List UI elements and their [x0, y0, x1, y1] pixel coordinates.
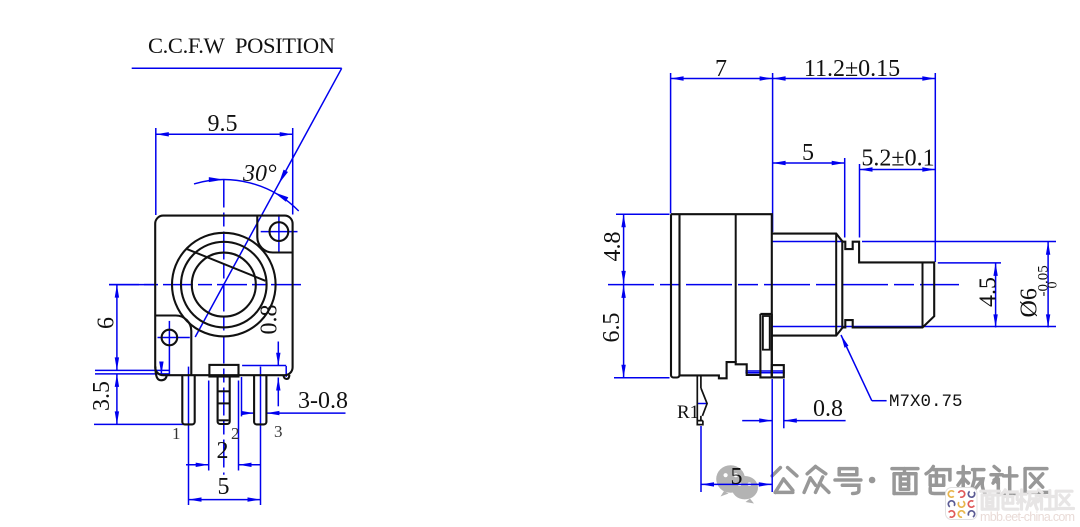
dim 4.8 ext top: [616, 213, 670, 215]
dim dia6 ext top: [772, 241, 844, 243]
svg-text:R1: R1: [677, 402, 699, 423]
middle circle: [181, 242, 267, 328]
dim 0.8 upper arrow: [277, 342, 279, 366]
right crimp bump: [283, 375, 289, 379]
inner circle shaft: [192, 253, 256, 317]
shaft profile: [842, 242, 934, 328]
side body bottom profile: [680, 362, 761, 378]
body front view: [155, 216, 292, 376]
dim 6 ext top: [109, 284, 155, 286]
svg-text:3-0.8: 3-0.8: [298, 388, 348, 414]
left crimp bump: [155, 367, 166, 381]
pin 3: [254, 375, 266, 424]
lug ext line b: [745, 372, 784, 374]
svg-text:9.5: 9.5: [208, 111, 238, 137]
svg-text:1: 1: [172, 424, 181, 443]
dim 0.8 side ext b: [783, 379, 785, 428]
dim 5.2 line: [860, 169, 936, 171]
bushing outline: [772, 234, 843, 336]
svg-text:-0.05: -0.05: [1036, 265, 1052, 296]
dim 4.5 line: [995, 263, 997, 328]
leader M7X0.75: [841, 335, 872, 401]
svg-text:3.5: 3.5: [89, 381, 115, 411]
svg-text:30°: 30°: [242, 161, 277, 187]
30deg arc arrow left: [209, 177, 224, 182]
dim 9.5 ext right: [292, 128, 294, 215]
front view horizontal centerline: [109, 284, 305, 286]
svg-text:3: 3: [274, 422, 283, 441]
svg-text:7: 7: [715, 56, 727, 82]
dim 2 arrows: [186, 464, 209, 466]
30deg dimension arc: [194, 180, 299, 211]
dim 5 side ext: [844, 158, 846, 238]
svg-text:2: 2: [217, 438, 229, 464]
svg-text:5: 5: [218, 474, 230, 500]
pin 2 crimp line a: [218, 390, 230, 392]
logo faint text: [980, 490, 1075, 524]
slot chord line: [187, 249, 266, 281]
svg-text:4.5: 4.5: [976, 277, 1002, 307]
top-right hole: [270, 222, 289, 241]
bushing chamfer line: [835, 234, 837, 336]
front view vertical centerline: [223, 180, 225, 475]
dim 6 ext bottom: [95, 369, 169, 371]
dim 4.5 ext bottom: [772, 326, 1056, 328]
pointer arrowhead on diagonal: [279, 170, 288, 184]
lug foot: [772, 365, 784, 377]
dim 2 ext left: [208, 381, 210, 471]
logo mbb colored arcs: [946, 488, 978, 520]
dim 7 line: [671, 78, 773, 80]
svg-text:5.2±0.1: 5.2±0.1: [861, 146, 934, 172]
watermark text gongzhonghao mianbaoban shequ: [772, 468, 797, 493]
30deg arc arrow right: [274, 192, 288, 201]
dim 2 ext right: [238, 381, 240, 471]
outer circle: [172, 233, 276, 337]
dim 6.5 line: [623, 285, 625, 378]
pin 2: [218, 377, 230, 425]
leader line from label: [132, 67, 342, 69]
svg-text:0.8: 0.8: [813, 396, 843, 422]
pin 2 crimp line c: [219, 419, 229, 421]
dim 11.2 line: [773, 78, 936, 80]
shaft chamfer edge line: [922, 262, 924, 327]
label dia6: [1017, 265, 1061, 317]
dim 3.5 ext bottom: [94, 423, 191, 425]
dim 11.2 ext right: [934, 73, 936, 262]
svg-text:5: 5: [731, 464, 743, 490]
center terminal tab: [209, 365, 238, 377]
dim 3.5 ext top: [95, 373, 169, 375]
svg-text:M7X0.75: M7X0.75: [889, 392, 963, 412]
side view centerline: [608, 284, 959, 286]
dim 7 ext left: [670, 73, 672, 214]
top-right pocket: [257, 216, 292, 253]
mounting lug inner slot: [763, 316, 770, 350]
svg-text:4.8: 4.8: [600, 232, 626, 262]
pin 3 centerline: [260, 367, 262, 425]
dim 0.8 ext line: [242, 365, 286, 367]
mounting lug plate: [760, 314, 771, 378]
svg-text:0.8: 0.8: [257, 305, 283, 335]
dim 0.8 side arrows: [742, 420, 772, 422]
svg-text:11.2±0.15: 11.2±0.15: [804, 56, 900, 82]
dim 3-0.8 arrows: [242, 412, 255, 414]
dim 4.5 ext top: [938, 262, 1001, 264]
pin R1 side: [697, 375, 707, 424]
dim 4.8 line: [623, 214, 625, 284]
svg-text:mbb.eet-china.com: mbb.eet-china.com: [980, 510, 1075, 524]
bottom-left hole: [162, 330, 178, 346]
dim 9.5 ext left: [155, 128, 157, 215]
dim 3.5 line: [116, 374, 118, 425]
dim 5 ext right: [260, 424, 262, 505]
side body outline: [671, 214, 772, 375]
side body mid line: [735, 214, 737, 362]
svg-text:6: 6: [94, 317, 120, 329]
dim 5 side line: [773, 162, 845, 164]
bottom-left pocket: [155, 316, 191, 375]
top-right hole v-centerline: [278, 214, 280, 252]
dim 9.5 line: [156, 133, 293, 135]
dim 5.2 ext: [859, 164, 861, 238]
pointer diagonal line: [195, 68, 342, 337]
dim 6.5 ext bottom: [614, 377, 670, 379]
dim 7-11.2 ext mid: [772, 73, 774, 232]
pin R1 blue tick: [697, 403, 708, 405]
lug ext line a: [745, 370, 784, 372]
dim 5b ext left: [700, 426, 702, 492]
pin 2 crimp line b: [218, 402, 230, 404]
dim 5 line: [189, 499, 261, 501]
dim dia6 line: [1047, 242, 1049, 328]
svg-text:C.C.F.W POSITION: C.C.F.W POSITION: [148, 33, 335, 58]
dim 0.8 lower arrow: [277, 378, 279, 407]
svg-text:5: 5: [802, 140, 814, 166]
svg-text:6.5: 6.5: [599, 313, 625, 343]
dim 5b line: [701, 483, 772, 485]
watermark wechat icon: [716, 465, 758, 503]
dim 0.8 side ext a: [771, 379, 773, 492]
pin 1: [182, 375, 194, 424]
dim 5 ext left: [188, 424, 190, 505]
dim 6 line: [116, 285, 118, 371]
bottom-left hole h-centerline: [158, 337, 190, 339]
pin 1 centerline: [188, 367, 190, 425]
bottom-left hole v-centerline: [168, 321, 170, 375]
svg-text:2: 2: [231, 424, 240, 443]
datum arrow at body bottom: [160, 363, 162, 375]
side body left cap: [671, 214, 680, 377]
top-right hole h-centerline: [261, 231, 298, 233]
